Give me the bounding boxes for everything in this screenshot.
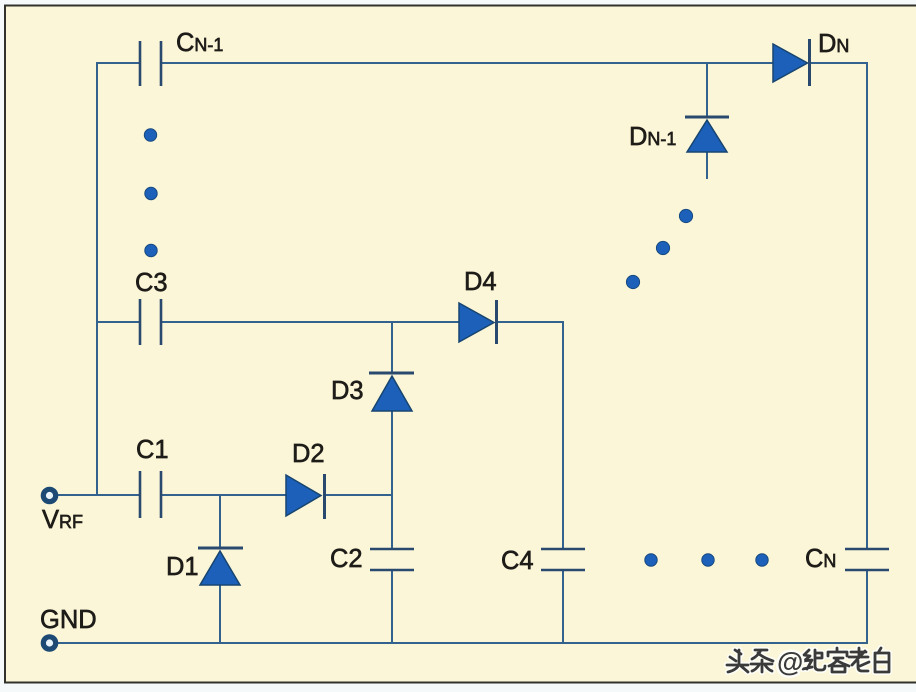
wire: mid rail bus to C3 bbox=[96, 321, 139, 323]
wire: C1 to D2 bbox=[162, 494, 287, 496]
wire: C4 column upper bbox=[562, 321, 564, 549]
wire: left bus vertical bbox=[96, 63, 98, 495]
svg-text:C3: C3 bbox=[135, 269, 168, 297]
diode D2 bbox=[286, 440, 325, 519]
wire: D1 to ground bbox=[219, 585, 221, 644]
wire: D4 cathode to corner bbox=[497, 321, 564, 323]
capacitor C4 bbox=[501, 547, 585, 575]
wire: D3 to C2 bbox=[391, 411, 393, 549]
wire: ground rail bbox=[52, 642, 868, 644]
wire: top rail DN to right corner bbox=[810, 62, 868, 64]
wire: C2 to ground bbox=[391, 571, 393, 644]
node VRF input terminal bbox=[42, 489, 83, 534]
wire: C4 column lower bbox=[562, 571, 564, 644]
wire: D2 cathode to node bbox=[325, 494, 393, 496]
svg-text:C2: C2 bbox=[330, 545, 363, 573]
diode D1 bbox=[166, 548, 243, 585]
capacitor CN bbox=[805, 545, 889, 573]
continuation dots diagonal (between D4 and DN-1) bbox=[626, 209, 692, 288]
svg-text:D1: D1 bbox=[166, 553, 199, 581]
svg-text:C1: C1 bbox=[136, 436, 169, 464]
svg-text:C4: C4 bbox=[501, 547, 534, 575]
wire: C3 to D4 bbox=[162, 321, 460, 323]
capacitor CN-1 bbox=[140, 29, 223, 86]
continuation dots horizontal (between C4 and CN) bbox=[645, 554, 768, 566]
capacitor C2 bbox=[330, 545, 414, 573]
svg-text:@: @ bbox=[777, 647, 803, 677]
wire: D3 column top bbox=[391, 321, 393, 373]
capacitor C3 bbox=[135, 269, 168, 345]
diode DN bbox=[773, 30, 849, 86]
wire: DN-1 column top bbox=[706, 62, 708, 117]
svg-text:D3: D3 bbox=[331, 377, 364, 405]
diode D4 bbox=[459, 268, 497, 344]
svg-text:GND: GND bbox=[40, 606, 97, 634]
capacitor C1 bbox=[136, 436, 169, 518]
diode D3 bbox=[331, 373, 414, 411]
continuation dots vertical (between C3 and CN-1) bbox=[144, 129, 157, 257]
diode DN-1 bbox=[629, 117, 729, 152]
wire: right bus upper bbox=[866, 62, 868, 549]
wire: VRF input to C1 bbox=[56, 494, 139, 496]
wire: top rail left of CN-1 bbox=[96, 62, 139, 64]
wire: DN-1 anode stub bbox=[706, 152, 708, 179]
wire: top rail CN-1 to DN bbox=[162, 62, 774, 64]
wire: right bus lower bbox=[866, 571, 868, 644]
svg-text:D2: D2 bbox=[292, 440, 325, 468]
svg-text:D4: D4 bbox=[464, 268, 497, 296]
node GND terminal bbox=[40, 606, 97, 649]
wire: D1 column top bbox=[219, 495, 221, 548]
